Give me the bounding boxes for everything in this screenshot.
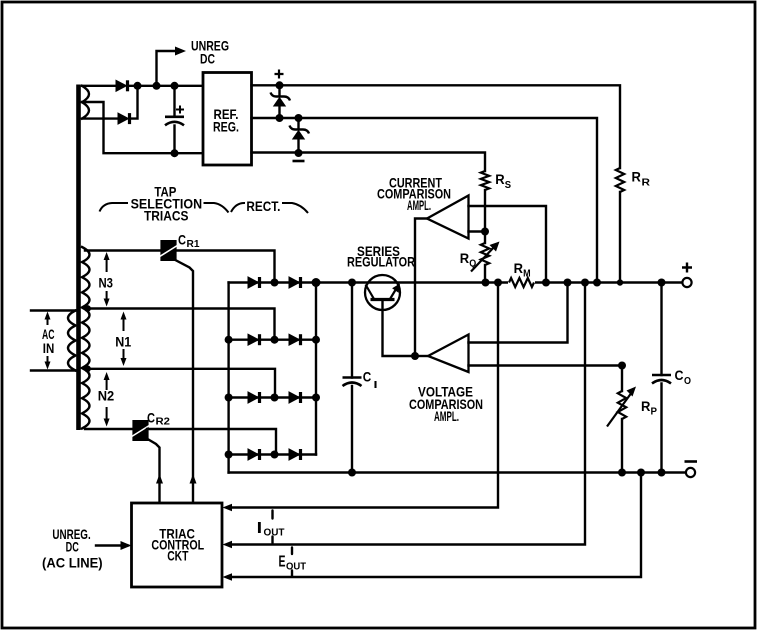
label CO <box>675 367 692 387</box>
svg-text:REG.: REG. <box>213 119 239 135</box>
brace left (rect) <box>231 203 245 212</box>
wire tap N3 top (to CR1) <box>85 249 161 251</box>
brace right (rect) <box>282 203 308 213</box>
junction dot tap2 at winding <box>84 305 91 312</box>
arrow CR1 gate <box>190 474 197 484</box>
label RM <box>514 260 531 279</box>
wire ref line top (to RR) <box>252 85 621 168</box>
svg-text:N2: N2 <box>98 388 115 404</box>
wire CR1 gate <box>173 259 194 504</box>
label + (output terminal) <box>682 263 692 273</box>
junction dot RR-bus <box>617 279 623 285</box>
rheostat Rp <box>607 387 636 473</box>
junction dot cap top <box>171 82 179 90</box>
wire Q1 base to amps <box>383 300 416 357</box>
svg-text:E: E <box>279 554 286 571</box>
svg-text:S: S <box>505 180 512 191</box>
wire main positive bus <box>229 281 682 283</box>
triac CR2 <box>132 420 150 441</box>
svg-text:N3: N3 <box>99 275 114 291</box>
svg-text:M: M <box>523 269 531 280</box>
junction dot row2 right <box>312 336 320 344</box>
transformer T1 auxiliary winding <box>82 86 89 119</box>
svg-text:I: I <box>374 380 378 391</box>
wire unreg dc into control <box>96 544 120 546</box>
junction dot rail sense <box>637 469 645 477</box>
AC IN dimension arrows <box>45 312 51 370</box>
wire UNREG DC takeoff <box>157 51 176 86</box>
svg-text:IN: IN <box>43 340 55 356</box>
wire ref line mid (to bus) <box>252 118 598 283</box>
wire tap N3-N1 junction <box>85 309 275 340</box>
junction dot bus x597 <box>593 279 601 287</box>
wire CR2 to bridge row4 <box>147 429 276 455</box>
wire bridge row2 <box>229 339 316 341</box>
svg-text:P: P <box>651 407 658 418</box>
wire voltage-amp input to Rp <box>621 366 623 392</box>
wire rail sense (rail to control) <box>232 473 641 578</box>
wire bridge right bus <box>315 283 317 455</box>
arrow UNREG DC <box>175 47 186 56</box>
diode CR5 (row2 left) <box>248 334 260 345</box>
junction dot cap bottom <box>171 149 179 157</box>
junction dot tap3 at winding <box>84 365 91 372</box>
wire AC line lower lead <box>31 369 76 371</box>
junction dot Rp bottom <box>618 469 626 477</box>
label RR <box>632 169 651 189</box>
label EOUT <box>279 548 307 577</box>
polarity - tick (VR2) <box>293 160 305 163</box>
diode CR8 (row3 right) <box>289 392 301 403</box>
capacitor (unreg filter) <box>165 86 184 153</box>
svg-text:C: C <box>178 232 186 248</box>
junction dot Rp top <box>618 362 626 370</box>
wire current amp upper input <box>469 206 547 283</box>
arrow E sense into box <box>223 541 233 549</box>
svg-text:OUT: OUT <box>264 528 285 539</box>
svg-text:RECT.: RECT. <box>246 198 280 214</box>
arrow CR2 gate <box>156 474 163 484</box>
label IOUT <box>257 511 285 544</box>
wire aux winding top lead <box>82 85 116 87</box>
svg-text:AMPL.: AMPL. <box>407 197 431 213</box>
diode CR7 (row3 left) <box>248 392 260 403</box>
resistor RS <box>481 171 489 243</box>
label TAP SELECTION TRIACS <box>131 184 203 224</box>
label VOLTAGE COMPARISON AMPL <box>409 384 483 425</box>
triac CR1 <box>160 240 178 261</box>
dimension N1 <box>115 312 131 367</box>
svg-text:N1: N1 <box>115 334 131 350</box>
diode CR3 (row1 left) <box>248 277 260 288</box>
brace right (tap selection) <box>204 203 229 213</box>
svg-text:OUT: OUT <box>286 562 306 573</box>
wire aux winding tap lead <box>82 102 104 119</box>
junction dot row1 right <box>312 278 321 287</box>
junction dot CI top <box>348 279 356 287</box>
svg-text:C: C <box>147 410 155 426</box>
label CI <box>363 368 378 391</box>
wire bridge row4 <box>229 453 316 455</box>
label CR1 <box>178 232 200 251</box>
polarity + (unreg cap) <box>176 106 184 114</box>
svg-text:REGULATOR: REGULATOR <box>347 254 415 270</box>
junction dot bus x546 <box>542 279 550 287</box>
wire CR2 gate <box>145 438 160 504</box>
svg-text:AMPL.: AMPL. <box>434 408 459 424</box>
svg-text:R: R <box>632 169 641 185</box>
transistor Q1 series regulator <box>365 275 400 310</box>
label RQ <box>460 250 477 270</box>
svg-text:R1: R1 <box>187 239 200 250</box>
arrow rail sense into box <box>223 573 233 581</box>
diode CR9 (row4 left) <box>248 449 260 460</box>
terminal + output <box>682 278 691 287</box>
svg-text:TRIACS: TRIACS <box>144 208 189 224</box>
svg-text:DC: DC <box>66 539 79 555</box>
svg-text:R: R <box>641 398 650 414</box>
svg-text:R: R <box>642 178 651 189</box>
label AC IN <box>42 326 55 356</box>
wire voltage amp output <box>415 355 428 357</box>
wire aux winding bottom lead <box>82 117 118 119</box>
rheostat RQ <box>471 242 500 283</box>
zener VR2 <box>290 114 310 157</box>
terminal - output <box>686 468 695 477</box>
junction dot row1 mid <box>271 279 279 287</box>
diode CR4 (row1 right) <box>289 277 301 288</box>
transformer T1 secondary winding <box>82 247 90 429</box>
diode CR6 (row2 right) <box>289 334 301 345</box>
junction dot bus x498 <box>494 279 502 287</box>
junction dot CO bottom <box>658 469 666 477</box>
op-amp current comparison <box>427 196 469 239</box>
svg-text:C: C <box>363 368 372 384</box>
arrow I sense into box <box>223 504 233 512</box>
wire bridge row3 <box>229 396 316 398</box>
svg-text:R: R <box>460 250 469 266</box>
capacitor CO <box>652 283 671 473</box>
wire D2 up to node <box>130 86 138 119</box>
dimension N3 <box>99 252 114 307</box>
svg-text:C: C <box>675 367 684 383</box>
svg-text:I: I <box>257 520 263 537</box>
wire voltage amp upper input <box>469 283 568 343</box>
wire E sense (bus to control) <box>232 283 585 545</box>
arrow unreg dc into box <box>121 541 132 550</box>
wire AC line upper lead <box>31 309 76 311</box>
label - overbar (output terminal) <box>685 460 698 463</box>
transformer T1 core <box>76 85 81 431</box>
label Rp <box>641 398 657 418</box>
wire tap N2 bottom (to CR2) <box>85 428 134 430</box>
svg-text:R: R <box>514 260 523 276</box>
resistor RM <box>508 276 535 289</box>
svg-text:R2: R2 <box>156 417 171 428</box>
junction dot bus x585 <box>581 279 589 287</box>
junction dot bus x661 (CO) <box>658 279 666 287</box>
brace left (tap selection) <box>100 203 129 212</box>
label SERIES REGULATOR <box>347 243 415 270</box>
junction dot bus x567 <box>564 279 572 287</box>
junction dot CI bottom <box>348 469 356 477</box>
wire D1 to REF REG <box>128 85 203 87</box>
label CR2 <box>147 410 170 428</box>
svg-text:O: O <box>684 376 691 387</box>
junction dot bus x486 <box>482 279 490 287</box>
wire current amp output <box>415 219 427 357</box>
diode CR10 (row4 right) <box>289 449 301 460</box>
junction dot UNREG takeoff <box>153 82 161 90</box>
wire tap N1-N2 junction <box>85 369 275 398</box>
svg-text:Q: Q <box>469 259 476 270</box>
svg-text:DC: DC <box>200 51 215 67</box>
junction dot row4 left <box>225 451 233 459</box>
wire ref line bottom (to RS) <box>252 153 486 172</box>
junction dot row2 left <box>225 336 233 344</box>
junction dot row3 mid <box>271 394 279 402</box>
svg-text:CKT: CKT <box>167 548 189 564</box>
diode D2 (aux rectifier bottom) <box>118 113 130 124</box>
wire current amp lower input <box>469 230 486 232</box>
junction dot row4 mid <box>271 451 279 459</box>
capacitor CI <box>343 283 362 473</box>
diode D1 (aux rectifier top) <box>116 80 128 91</box>
svg-text:(AC LINE): (AC LINE) <box>42 555 103 571</box>
label UNREG DC (top) <box>191 38 229 67</box>
block REF. REG. <box>203 73 252 166</box>
junction dot D2 node <box>134 82 142 90</box>
transformer T1 primary winding <box>68 311 76 371</box>
wire bridge left bus <box>227 283 229 473</box>
block TRIAC CONTROL CKT <box>132 503 223 587</box>
wire aux return <box>104 119 204 154</box>
label CURRENT COMPARISON AMPL <box>377 175 451 214</box>
label RS <box>495 171 511 191</box>
junction dot row2 mid <box>271 336 279 344</box>
wire I sense (bus to control) <box>232 283 498 508</box>
svg-text:R: R <box>495 171 504 187</box>
resistor RR <box>616 168 624 283</box>
wire CR1 to bridge row1 <box>176 251 275 283</box>
junction dot RS-lower-input <box>481 228 489 236</box>
junction dot row3 left <box>225 394 233 402</box>
junction dot row3 right <box>312 394 320 402</box>
polarity + (VR1) <box>275 70 284 79</box>
wire negative rail <box>229 471 686 473</box>
label UNREG DC (AC LINE) <box>42 526 103 571</box>
dimension N2 <box>98 372 115 427</box>
junction dot amp outputs <box>411 352 419 360</box>
op-amp voltage comparison <box>428 335 469 373</box>
label RECT. <box>246 198 280 214</box>
wire voltage amp lower input <box>469 364 623 366</box>
zener VR1 <box>271 81 291 122</box>
